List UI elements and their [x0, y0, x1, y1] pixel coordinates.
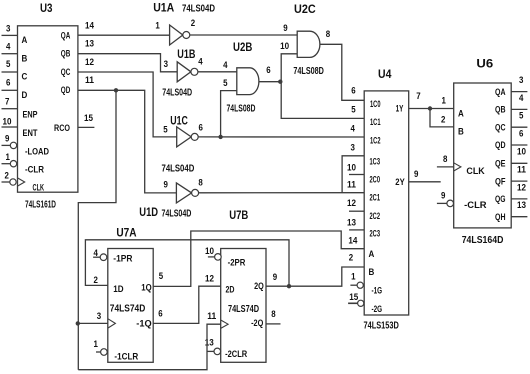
svg-text:1Q: 1Q [141, 282, 151, 292]
U3 pin names right [54, 30, 71, 133]
U1C title [170, 116, 188, 128]
svg-text:14: 14 [348, 235, 357, 245]
U7A pin numbers [94, 248, 164, 349]
U7A CLK edge triangle [108, 319, 116, 328]
svg-text:15: 15 [349, 292, 358, 302]
svg-text:QG: QG [495, 194, 506, 204]
U4 right pin numbers [414, 91, 421, 179]
svg-text:5: 5 [223, 78, 227, 88]
svg-text:A: A [369, 249, 375, 259]
U4 pin 1 -1G stub and bubble [350, 282, 363, 288]
U2C part number 74LS08D [293, 66, 324, 77]
U7B CLK edge triangle [221, 320, 228, 328]
svg-text:U7A: U7A [116, 227, 136, 239]
svg-text:9: 9 [5, 134, 9, 144]
U4 pin 12 stub [349, 210, 364, 212]
U4 pin 13 stub [349, 229, 364, 231]
wire U1B output to U2B pin 4 [198, 71, 237, 73]
svg-text:-1G: -1G [372, 285, 383, 295]
junction dot U7B 2Q node [287, 284, 291, 288]
svg-text:U4: U4 [378, 69, 392, 81]
U6 title [476, 59, 493, 71]
svg-text:74LS161D: 74LS161D [25, 199, 56, 210]
svg-text:11: 11 [517, 165, 526, 175]
svg-text:6: 6 [158, 309, 162, 319]
svg-text:4: 4 [351, 123, 355, 133]
wire U7A -1Q to U7B 2D [153, 286, 221, 323]
wire U4 1Y to U6 pin 1 A [409, 108, 454, 110]
U7B pin 10 -2PR stub and bubble [208, 254, 221, 261]
svg-text:C: C [22, 72, 28, 82]
U1B pin numbers [164, 57, 203, 69]
U3 input pin wires 3,4,5,6,7,10 [2, 35, 18, 127]
svg-text:11: 11 [85, 75, 94, 85]
IC U7A 74LS74D body [108, 249, 153, 363]
svg-text:-CLR: -CLR [25, 165, 44, 175]
svg-text:74LS74D: 74LS74D [110, 304, 146, 315]
svg-text:13: 13 [85, 39, 94, 49]
wire QD to U1D input [78, 90, 176, 193]
wire 2Q node up-left to U7A 1D [85, 240, 289, 286]
wire U1D output to U4 pin 11 2C1 [198, 192, 364, 194]
svg-text:74LS153D: 74LS153D [364, 320, 399, 331]
svg-text:2: 2 [441, 114, 445, 124]
svg-text:QF: QF [495, 176, 506, 186]
svg-text:QA: QA [61, 30, 71, 40]
inverter U1C 74LS04D [177, 127, 199, 147]
svg-text:-CLR: -CLR [464, 200, 487, 210]
svg-text:1: 1 [155, 20, 159, 30]
wire junction up to U2C pin 10 [281, 54, 297, 82]
svg-text:4: 4 [6, 41, 10, 51]
U6 pin names left [458, 108, 487, 210]
svg-text:11: 11 [207, 311, 216, 321]
wire U1C node up to U2B pin 5 [221, 91, 237, 137]
svg-text:2D: 2D [226, 285, 235, 295]
U6 output stub wires QA-QH [511, 92, 527, 217]
svg-text:9: 9 [273, 272, 277, 282]
svg-text:4: 4 [519, 93, 523, 103]
svg-text:U2B: U2B [233, 42, 252, 54]
svg-text:6: 6 [266, 65, 270, 75]
svg-text:B: B [369, 267, 375, 277]
svg-text:QA: QA [495, 87, 506, 97]
U2B title [233, 42, 252, 54]
svg-text:13: 13 [205, 338, 214, 348]
wire to U7A CLK pin 3 [78, 322, 108, 324]
svg-text:6: 6 [519, 128, 523, 138]
junction dot U1C output [218, 135, 222, 139]
svg-text:2: 2 [94, 275, 98, 285]
svg-text:8: 8 [326, 29, 330, 39]
svg-text:1C0: 1C0 [370, 99, 381, 109]
svg-text:A: A [22, 35, 28, 45]
U6 pin 9 -CLR stub and bubble [437, 200, 454, 207]
wire QC to U1C input [78, 72, 177, 137]
U6 right pin numbers [517, 75, 526, 210]
svg-text:A: A [458, 108, 464, 118]
svg-text:U3: U3 [40, 3, 53, 15]
U3 part number 74LS161D [25, 199, 56, 210]
IC U7B 74LS74D body [221, 249, 266, 363]
svg-text:5: 5 [159, 271, 163, 281]
svg-text:9: 9 [164, 180, 168, 190]
svg-text:D: D [22, 90, 28, 100]
svg-text:CLK: CLK [466, 166, 485, 176]
svg-text:6: 6 [351, 85, 355, 95]
wire U2B output to junction [259, 81, 281, 83]
junction dot QD feedback at U7A CLK [76, 321, 80, 325]
U7B pin 13 -2CLR bubble [214, 348, 221, 355]
U7A pin names [113, 254, 151, 362]
svg-text:QB: QB [61, 49, 71, 59]
svg-text:-2Q: -2Q [251, 318, 263, 328]
svg-text:6: 6 [199, 122, 203, 132]
U6 CLK edge triangle [454, 163, 461, 171]
svg-text:ENT: ENT [23, 128, 38, 138]
wire -2CLR stub to bottom riser [207, 350, 214, 352]
U7A pin 1 -1CLR stub and bubble [96, 349, 107, 356]
wire 1Y node down to U6 pin 2 B [430, 109, 454, 127]
svg-text:74LS164D: 74LS164D [462, 235, 504, 246]
U3 pin 2 CLK wire and bubble [2, 179, 17, 185]
svg-text:U1C: U1C [170, 116, 188, 128]
wire U1C output to U4 pin 4 1C2 [198, 136, 364, 138]
svg-text:12: 12 [205, 274, 214, 284]
svg-text:1: 1 [94, 339, 98, 349]
wire junction down to U4 pin 5 1C1 [281, 82, 364, 119]
svg-text:2: 2 [191, 18, 195, 28]
svg-text:U1A: U1A [153, 2, 174, 14]
svg-text:1C2: 1C2 [370, 136, 381, 146]
svg-text:CLK: CLK [33, 182, 45, 192]
svg-text:1C1: 1C1 [370, 117, 381, 127]
svg-text:74LS04D: 74LS04D [182, 3, 215, 14]
U4 pin names right [395, 103, 404, 187]
junction dot QD node [114, 88, 118, 92]
svg-text:QD: QD [61, 85, 71, 95]
svg-text:QC: QC [495, 122, 506, 132]
svg-text:5: 5 [351, 104, 355, 114]
U4 pin names left [369, 99, 383, 314]
svg-text:QB: QB [495, 105, 506, 115]
junction dot 1Y node [428, 106, 432, 110]
U3 title [40, 3, 53, 15]
svg-text:2C3: 2C3 [370, 229, 381, 239]
U7B title [229, 210, 248, 222]
svg-text:4: 4 [223, 60, 227, 70]
svg-text:8: 8 [271, 309, 275, 319]
wire QB to U1B input [78, 54, 177, 72]
wire U7B 2Q to U4 pin 2 B [266, 267, 364, 286]
U7B pin 8 -2Q stub [266, 323, 281, 325]
svg-text:U1D: U1D [139, 207, 158, 219]
inverter U1B 74LS04D [177, 62, 198, 82]
wire branch up to U4 pin 3 1C3 [342, 156, 364, 193]
wire U2C output to U4 pin 6 1C0 [320, 44, 364, 100]
U2B pin numbers [223, 60, 271, 88]
U4 left pin numbers [347, 85, 358, 301]
svg-text:10: 10 [3, 116, 12, 126]
U4 pin 15 -2G stub and bubble [348, 300, 364, 306]
svg-text:74LS04D: 74LS04D [162, 87, 192, 98]
svg-text:8: 8 [198, 177, 202, 187]
IC U3 74LS161D body [18, 26, 78, 192]
U1A title [153, 2, 174, 14]
svg-text:U1B: U1B [177, 49, 195, 61]
svg-text:2C0: 2C0 [370, 174, 381, 184]
U1C pin numbers [163, 122, 203, 134]
U3 pin 9 -LOAD wire and bubble [2, 142, 17, 148]
U3 pin names left [22, 35, 50, 192]
U4 pin 9 2Y stub [409, 181, 441, 183]
svg-text:2C1: 2C1 [370, 193, 381, 203]
svg-text:15: 15 [84, 113, 93, 123]
svg-text:U2C: U2C [294, 4, 316, 16]
svg-text:2: 2 [5, 171, 9, 181]
svg-text:ENP: ENP [23, 110, 38, 120]
U1D pin numbers [164, 177, 203, 189]
wire bottom run to U7B CLK pin 11 [78, 324, 220, 370]
svg-text:74LS08D: 74LS08D [293, 66, 324, 77]
svg-text:12: 12 [517, 182, 526, 192]
wire QD feedback down-left-down [78, 90, 116, 369]
U1D part number 74LS04D above [162, 163, 195, 174]
svg-text:11: 11 [347, 180, 356, 190]
svg-text:9: 9 [414, 169, 418, 179]
svg-text:3: 3 [164, 59, 168, 69]
U1D part number 74LS04D below [162, 208, 192, 219]
svg-text:U6: U6 [476, 59, 493, 71]
U7A part number 74LS74D inside [110, 304, 146, 315]
U1A part number 74LS04D [182, 3, 215, 14]
svg-text:-2CLR: -2CLR [225, 349, 248, 359]
svg-text:6: 6 [6, 77, 10, 87]
svg-text:3: 3 [97, 311, 101, 321]
svg-text:RCO: RCO [54, 123, 70, 133]
U4 pin 10 stub [349, 174, 364, 176]
svg-text:4: 4 [94, 248, 98, 258]
U7B pin names [225, 258, 264, 360]
svg-text:3: 3 [519, 75, 523, 85]
svg-text:5: 5 [163, 125, 167, 135]
svg-text:1C3: 1C3 [370, 156, 381, 166]
IC U4 74LS153D body [364, 91, 409, 315]
svg-text:-2G: -2G [372, 304, 383, 314]
svg-text:9: 9 [441, 190, 445, 200]
U7B pin numbers [205, 246, 277, 348]
svg-text:1: 1 [351, 272, 355, 282]
svg-text:12: 12 [85, 57, 94, 67]
svg-text:U7B: U7B [229, 210, 248, 222]
U4 title [378, 69, 392, 81]
svg-text:74LS74D: 74LS74D [228, 304, 259, 315]
svg-text:1D: 1D [113, 284, 124, 294]
svg-text:QH: QH [495, 212, 506, 222]
svg-text:8: 8 [443, 154, 447, 164]
svg-text:14: 14 [85, 21, 94, 31]
IC U6 74LS164D body [454, 83, 512, 228]
U3 right pin numbers [84, 21, 94, 123]
svg-text:QC: QC [61, 67, 71, 77]
svg-text:1: 1 [6, 152, 10, 162]
svg-text:2: 2 [349, 252, 353, 262]
svg-text:5: 5 [6, 59, 10, 69]
svg-text:7: 7 [5, 97, 9, 107]
svg-text:QE: QE [495, 159, 506, 169]
svg-text:7: 7 [416, 91, 420, 101]
svg-text:74LS08D: 74LS08D [227, 104, 256, 115]
svg-text:1Y: 1Y [396, 103, 404, 113]
wire QA to U1A input [78, 34, 170, 36]
U6 part number 74LS164D [462, 235, 504, 246]
svg-text:9: 9 [283, 23, 287, 33]
U1B part number 74LS04D [162, 87, 192, 98]
U6 pin 8 CLK stub [437, 166, 454, 168]
U3 pin 1 -CLR wire and bubble [2, 161, 17, 167]
svg-text:13: 13 [517, 200, 526, 210]
U2B part number 74LS08D [227, 104, 256, 115]
U3 left pin numbers [3, 23, 12, 180]
U7B part number 74LS74D inside [228, 304, 259, 315]
svg-text:-1PR: -1PR [113, 254, 133, 264]
svg-text:10: 10 [517, 147, 526, 157]
svg-text:3: 3 [6, 23, 10, 33]
svg-text:QD: QD [495, 140, 506, 150]
AND gate U2B 74LS08D [237, 68, 259, 95]
svg-text:4: 4 [198, 57, 202, 67]
U7A title [116, 227, 136, 239]
junction dot U2B output node [278, 80, 282, 84]
svg-text:10: 10 [347, 162, 356, 172]
svg-text:10: 10 [280, 41, 289, 51]
svg-text:2Y: 2Y [395, 177, 404, 187]
U4 part number 74LS153D [364, 320, 399, 331]
U1D title [139, 207, 158, 219]
wire U7A 1Q to U4 pin 14 A [153, 231, 364, 286]
U3 CLK edge triangle [18, 178, 25, 186]
U7A pin 4 -1PR stub and bubble [93, 254, 107, 261]
svg-text:13: 13 [347, 218, 356, 228]
U1A pin numbers [155, 18, 195, 30]
svg-text:12: 12 [347, 198, 356, 208]
U6 left pin numbers [441, 96, 447, 201]
svg-text:74LS04D: 74LS04D [162, 208, 192, 219]
svg-text:5: 5 [519, 111, 523, 121]
AND gate U2C 74LS08D [297, 31, 320, 57]
svg-text:-1Q: -1Q [136, 318, 151, 328]
svg-text:2Q: 2Q [254, 281, 264, 291]
U6 pin names right QA-QH [495, 87, 506, 222]
svg-text:-1CLR: -1CLR [114, 352, 138, 362]
svg-text:B: B [22, 53, 28, 63]
svg-text:74LS04D: 74LS04D [162, 163, 195, 174]
U3 pin 15 RCO stub wire [78, 126, 95, 128]
svg-text:2C2: 2C2 [370, 211, 381, 221]
U2C pin numbers [280, 23, 330, 51]
svg-text:3: 3 [351, 142, 355, 152]
svg-text:10: 10 [205, 246, 214, 256]
svg-text:1: 1 [442, 96, 446, 106]
U1B title [177, 49, 195, 61]
svg-text:-LOAD: -LOAD [25, 146, 49, 156]
svg-text:B: B [458, 126, 464, 136]
inverter U1D 74LS04D [176, 183, 198, 203]
wire U1A output to U2C pin 9 [190, 34, 297, 36]
U2C title [294, 4, 316, 16]
svg-text:-2PR: -2PR [228, 258, 246, 268]
inverter U1A 74LS04D [170, 25, 190, 45]
